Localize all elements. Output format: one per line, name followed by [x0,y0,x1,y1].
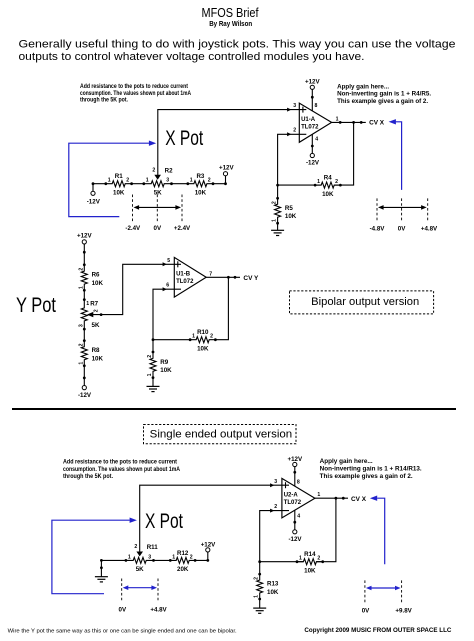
svg-text:1: 1 [108,178,111,184]
dashed box: Single ended output version [144,425,297,444]
resistor R4 10K [314,175,342,198]
svg-text:2: 2 [134,544,137,550]
svg-text:U1-A: U1-A [301,117,316,123]
svg-text:R1: R1 [115,173,123,180]
svg-text:R12: R12 [177,550,189,557]
wire: feedback R14 loop [260,498,336,562]
svg-text:1: 1 [147,373,153,376]
svg-text:+12V: +12V [77,232,92,239]
svg-text:2: 2 [152,168,155,174]
ground (R5) [271,223,284,235]
terminal -12V (X row left) [87,184,101,206]
svg-text:CV X: CV X [351,496,367,503]
svg-text:10K: 10K [92,356,104,363]
svg-text:Generally useful thing to do w: Generally useful thing to do with joysti… [19,39,456,51]
terminal +12V (U2-A pin 8) [287,456,302,486]
dashed box: Bipolar output version [290,291,434,314]
svg-text:+12V: +12V [287,456,302,463]
svg-text:-12V: -12V [306,159,320,166]
svg-text:2: 2 [208,178,211,184]
blue arrow: CV X single range [370,496,385,565]
svg-text:Wire the Y pot the same way as: Wire the Y pot the same way as this or o… [8,628,237,634]
svg-text:1: 1 [128,554,131,560]
terminal +12V (X row right) [219,165,234,186]
svg-text:R7: R7 [90,300,98,307]
svg-text:5K: 5K [92,322,100,329]
resistor R13 10K [254,573,279,601]
wire [83,290,85,299]
svg-text:1: 1 [146,178,149,184]
svg-text:2: 2 [335,179,338,185]
svg-text:Single ended output version: Single ended output version [150,428,293,440]
potentiometer R2 5K (X pot) [142,168,173,197]
svg-text:2: 2 [293,128,296,134]
svg-text:CV Y: CV Y [243,275,259,282]
svg-text:2: 2 [190,554,193,560]
pin 2 input wire [278,128,307,199]
svg-text:8: 8 [297,479,300,485]
svg-text:+9.8V: +9.8V [395,607,412,614]
op-amp U2-A TL072 [282,478,315,518]
svg-text:1: 1 [78,362,84,365]
svg-text:+4.8V: +4.8V [421,226,438,233]
note: add resistance to pots (bottom) [63,459,180,480]
svg-text:outputs to control whatever vo: outputs to control whatever voltage cont… [19,51,365,63]
terminal -12V (U1-A pin 4) [306,134,320,166]
resistor R14 10K [296,551,325,574]
svg-text:TL072: TL072 [176,279,194,285]
svg-text:7: 7 [209,271,212,277]
svg-text:1: 1 [78,286,84,289]
potentiometer R11 5K (X pot single) [125,544,159,573]
pin 6 input wire [153,283,181,340]
svg-text:Apply gain here...: Apply gain here... [320,458,373,465]
svg-text:1: 1 [299,556,302,562]
svg-text:TL072: TL072 [301,124,319,130]
svg-text:0V: 0V [398,226,406,233]
svg-text:R14: R14 [304,551,316,558]
svg-text:5K: 5K [154,189,162,196]
svg-text:-12V: -12V [288,536,302,543]
svg-text:10K: 10K [322,191,334,198]
svg-text:R11: R11 [147,544,159,551]
potentiometer R7 5K (Y pot) [78,298,100,330]
svg-text:0V: 0V [154,225,162,232]
svg-text:6: 6 [166,283,169,289]
svg-text:consumption. The values shown: consumption. The values shown put about … [63,466,180,473]
wire: U1-A output to CV X [332,116,366,124]
svg-text:1: 1 [254,595,260,598]
wire: R11 wiper up to U2-A pin 3 [140,485,289,551]
wire: X pot row [93,183,226,185]
svg-text:3: 3 [293,103,296,109]
svg-text:R4: R4 [324,175,332,182]
svg-text:3: 3 [148,554,151,560]
svg-text:10K: 10K [197,345,209,352]
svg-text:0V: 0V [362,607,370,614]
svg-text:-12V: -12V [78,392,92,399]
svg-text:U1-B: U1-B [176,271,191,277]
svg-text:10K: 10K [195,189,207,196]
wire: R2 wiper up to U1-A pin 3 [158,110,306,175]
svg-text:8: 8 [315,103,318,109]
svg-text:Y Pot: Y Pot [16,294,56,317]
svg-text:1: 1 [272,219,278,222]
svg-text:10K: 10K [267,589,279,596]
wire [83,329,85,341]
wire: bottom X pot row [101,559,207,561]
svg-text:2: 2 [272,201,278,204]
svg-text:R8: R8 [92,347,100,354]
svg-text:+12V: +12V [219,165,234,172]
svg-text:2: 2 [94,309,100,312]
svg-text:MFOS Brief: MFOS Brief [202,5,259,20]
svg-text:1: 1 [190,178,193,184]
svg-text:R10: R10 [197,329,209,336]
section divider line [12,408,456,410]
svg-text:2: 2 [210,334,213,340]
svg-text:Non-inverting gain is 1 + R4/R: Non-inverting gain is 1 + R4/R5. [337,91,431,98]
svg-text:0V: 0V [119,606,127,613]
svg-text:10K: 10K [113,189,125,196]
resistor R10 10K [189,329,217,352]
terminal -12V (Y chain bottom) [78,366,92,399]
pin 3 marker [293,103,303,113]
svg-text:10K: 10K [160,367,172,374]
svg-text:through the 5K pot.: through the 5K pot. [80,96,128,103]
ground (row left) [95,560,108,582]
svg-text:U2-A: U2-A [284,492,299,498]
resistor R12 20K [169,550,197,573]
wire: feedback R10 loop [153,277,228,339]
blue arrow: CV X range [389,119,402,190]
svg-text:This example gives a gain of 2: This example gives a gain of 2. [320,473,413,480]
svg-text:Add resistance to the pots to: Add resistance to the pots to reduce cur… [63,459,177,466]
svg-text:Apply gain here...: Apply gain here... [337,83,389,90]
svg-text:-2.4V: -2.4V [125,225,141,232]
wire: R7 wiper to U1-B pin 5 [93,262,182,316]
svg-text:1: 1 [192,334,195,340]
svg-text:10K: 10K [285,213,297,220]
svg-text:Bipolar output version: Bipolar output version [311,296,419,308]
svg-text:TL072: TL072 [284,500,302,506]
terminal -12V (U2-A pin 4) [288,510,302,543]
resistor R8 10K [78,339,103,367]
svg-text:3: 3 [166,178,169,184]
svg-text:2: 2 [254,577,260,580]
resistor R9 10K [147,338,172,379]
svg-text:4: 4 [297,514,300,520]
svg-text:CV X: CV X [369,119,385,126]
svg-text:1: 1 [317,492,320,498]
svg-text:R5: R5 [285,205,293,212]
svg-text:1: 1 [336,116,339,122]
svg-text:10K: 10K [304,567,316,574]
ground (R13) [253,599,266,613]
voltage range indicator -4.8V..+4.8V [370,198,438,232]
svg-text:X Pot: X Pot [165,127,203,150]
voltage range indicator 0V..+4.8V (blue) [119,579,168,614]
svg-text:10K: 10K [92,280,104,287]
voltage range indicator -2.4V..+2.4V [125,195,191,232]
svg-text:X Pot: X Pot [145,510,183,533]
svg-text:+4.8V: +4.8V [150,606,167,613]
ground (R9) [147,378,160,392]
svg-text:R6: R6 [92,272,100,279]
pin 3 marker [274,479,285,488]
wire: U2-A output to CV X [315,492,348,499]
svg-text:By Ray Wilson: By Ray Wilson [209,19,252,28]
blue annotation arrow to X Pot (bottom) [52,518,137,594]
resistor R5 10K [272,197,297,225]
svg-text:R3: R3 [196,173,204,180]
svg-text:R2: R2 [165,168,173,175]
svg-text:2: 2 [78,268,84,271]
svg-text:5: 5 [167,258,170,264]
svg-text:20K: 20K [177,566,189,573]
pin 5 marker [167,258,178,267]
svg-text:R9: R9 [160,359,168,366]
svg-text:-4.8V: -4.8V [370,226,386,233]
svg-text:1: 1 [172,554,175,560]
terminal +12V (bottom row) [201,541,216,561]
svg-text:5K: 5K [136,566,144,573]
terminal +12V (Y chain top) [77,232,92,264]
resistor R6 10K [78,263,103,291]
intro paragraph [19,39,456,63]
svg-text:1: 1 [317,179,320,185]
svg-text:2: 2 [78,343,84,346]
svg-text:2: 2 [126,178,129,184]
note: add resistance to pots (top) [80,83,191,103]
note: apply gain here (top) [337,83,431,105]
wire: feedback from output [278,122,354,185]
svg-text:R13: R13 [267,581,279,588]
svg-text:2: 2 [274,504,277,510]
svg-text:-12V: -12V [87,198,101,205]
resistor R1 10K [104,173,133,196]
svg-text:Copyright 2009 MUSIC FROM OUTE: Copyright 2009 MUSIC FROM OUTER SPACE LL… [304,627,452,634]
voltage range indicator 0V..+9.8V (blue) [362,580,413,614]
svg-text:2: 2 [317,556,320,562]
svg-text:+12V: +12V [305,78,320,85]
op-amp U1-A TL072 [299,103,331,142]
svg-text:1: 1 [86,301,89,307]
svg-text:2: 2 [147,355,153,358]
svg-text:through the 5K pot.: through the 5K pot. [63,473,113,480]
wire: U1-B output to CV Y [206,271,240,278]
terminal +12V (U1-A pin 8) [305,78,320,111]
svg-text:This example gives a gain of 2: This example gives a gain of 2. [337,98,428,105]
pin 2 input wire [260,504,289,574]
blue annotation arrow to X Pot [69,141,156,217]
svg-text:3: 3 [274,479,277,485]
svg-text:+12V: +12V [201,541,216,548]
svg-text:4: 4 [315,136,318,142]
op-amp U1-B TL072 [174,257,206,297]
resistor R3 10K [186,173,214,196]
note: apply gain here (bottom) [320,458,422,480]
svg-text:+2.4V: +2.4V [174,225,191,232]
svg-text:Non-inverting gain is 1 + R14/: Non-inverting gain is 1 + R14/R13. [320,466,422,473]
svg-text:3: 3 [78,324,84,327]
